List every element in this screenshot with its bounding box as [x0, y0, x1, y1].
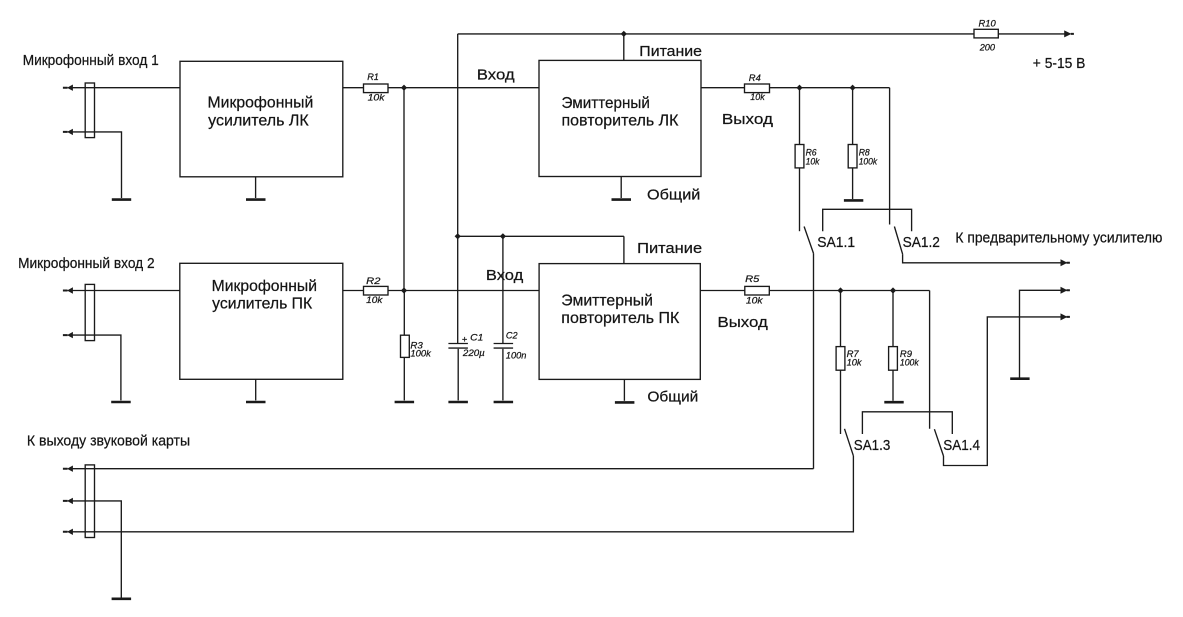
wire: SA1.2 output to preamp arrow [903, 254, 1061, 263]
arrow at jack1 pin2 [63, 129, 73, 135]
svg-text:Выход: Выход [722, 112, 774, 128]
svg-text:повторитель ЛК: повторитель ЛК [562, 113, 679, 130]
ground (block U3) [246, 401, 266, 404]
capacitor C2 [494, 343, 513, 345]
wire: block U1 ground pin [255, 177, 257, 198]
svg-text:Общий: Общий [647, 187, 700, 203]
svg-text:К предварительному усилителю: К предварительному усилителю [955, 231, 1162, 247]
node: junction R9 [890, 287, 896, 293]
svg-text:R2: R2 [366, 275, 381, 286]
ground (jack2) [111, 401, 131, 404]
svg-text:Выход: Выход [718, 315, 769, 331]
resistor R10 [974, 29, 998, 38]
connector XS2 (mic input 2 jack) [85, 284, 94, 340]
ground (R8) [844, 199, 863, 202]
switch SA1.4 blade [934, 429, 943, 456]
resistor R1 [364, 84, 389, 93]
svg-text:усилитель ЛК: усилитель ЛК [208, 112, 309, 129]
svg-text:Микрофонный: Микрофонный [212, 278, 317, 295]
svg-text:10k: 10k [368, 91, 386, 102]
wire: R3 top lead [403, 291, 405, 336]
wire: U3 ground pin [255, 379, 257, 400]
arrow: right output 3 [1061, 313, 1070, 320]
ground (R9) [884, 401, 903, 404]
wire: R2 to emitter follower PK input [388, 290, 539, 292]
block U1: Микрофонный усилитель ЛК [180, 61, 343, 177]
svg-text:SA1.3: SA1.3 [854, 438, 891, 454]
wire: U4 ground pin [623, 379, 625, 400]
svg-text:10k: 10k [366, 294, 384, 305]
wire: jack1 pin2 to ground [73, 132, 122, 198]
wire: U3 output to R2 [343, 290, 364, 292]
arrow: preamp left channel [1061, 259, 1070, 266]
wire: U2 ground pin [620, 177, 622, 199]
resistor R7 [836, 347, 845, 371]
svg-text:SA1.2: SA1.2 [903, 235, 940, 251]
svg-text:повторитель ПК: повторитель ПК [561, 310, 679, 327]
wire: R1 to emitter follower LK input [388, 87, 539, 89]
block U3: Микрофонный усилитель ПК [180, 263, 343, 379]
svg-text:10k: 10k [750, 91, 766, 102]
svg-text:Общий: Общий [647, 390, 698, 406]
arrow at jack3 pin3 [63, 529, 73, 535]
node A (junction R1 out) [401, 85, 407, 91]
svg-text:100k: 100k [410, 348, 432, 359]
wire: +V rail top [458, 33, 974, 35]
capacitor C1 [448, 343, 468, 345]
resistor R8 [848, 145, 857, 168]
wire: SA1.3 output down to sound card line [73, 456, 854, 532]
svg-text:R5: R5 [745, 273, 760, 284]
wire: R8 bottom lead [852, 168, 854, 199]
svg-text:Питание: Питание [637, 241, 702, 257]
svg-text:Питание: Питание [639, 44, 702, 60]
resistor R9 [889, 347, 898, 371]
arrow at jack1 pin1 [63, 85, 73, 91]
wire: R8 top lead [852, 88, 854, 145]
wire: R7 top lead [840, 291, 842, 347]
ground (right arm) [1010, 377, 1029, 380]
wire: C2 top lead [502, 236, 504, 343]
wire: R4 to SA1.2 corner [770, 87, 890, 89]
svg-text:SA1.1: SA1.1 [817, 235, 855, 251]
node: junction C2 rail [500, 233, 506, 239]
node: junction R7 [837, 287, 843, 293]
wire: C2 bottom lead [502, 349, 504, 401]
svg-text:Эмиттерный: Эмиттерный [562, 95, 650, 112]
node: Питание pin (row1) dot [621, 31, 627, 37]
node: junction R2 out [401, 287, 407, 293]
switch SA1.3 blade [845, 429, 854, 456]
wire: U2 output to R4 [701, 87, 745, 89]
wire: SA1.1 output long line to jack3 pin1 [73, 468, 814, 470]
ground (C2) [494, 401, 513, 404]
arrow: +5-15V supply [1064, 30, 1074, 37]
wire: R9 bottom lead [892, 370, 894, 401]
svg-text:R1: R1 [367, 71, 379, 82]
wire: U1 output to R1 [343, 87, 364, 89]
node: junction R8 [850, 85, 856, 91]
svg-text:100n: 100n [506, 350, 527, 361]
arrow: right output 2 [1061, 287, 1070, 294]
wire: SA1.4 feed vertical [929, 291, 931, 429]
resistor R2 [364, 286, 389, 295]
resistor R5 [745, 286, 770, 295]
connector XS1 (mic input 1 jack) [85, 83, 94, 138]
wire: R3 bottom lead [403, 357, 405, 400]
svg-text:100k: 100k [859, 156, 879, 167]
wire: junction column A down to row 2 [403, 88, 405, 291]
wire: C1 bottom lead [457, 349, 459, 401]
svg-text:Микрофонный: Микрофонный [208, 95, 314, 112]
svg-text:Эмиттерный: Эмиттерный [561, 292, 653, 309]
wire: R6 bottom lead to SA1.1 [799, 168, 801, 231]
wire: row2 supply rail [458, 235, 624, 237]
svg-text:SA1.4: SA1.4 [943, 438, 980, 454]
ground (R3) [395, 401, 415, 404]
wire: R6 top lead [799, 88, 801, 145]
svg-text:C1: C1 [470, 332, 483, 343]
wire: bracket SA1.3-SA1.4 [862, 412, 952, 434]
arrow at jack2 pin2 [63, 332, 73, 338]
svg-text:К выходу звуковой карты: К выходу звуковой карты [27, 434, 190, 450]
wire: Питание pin row1 [623, 34, 625, 61]
wire: jack2 pin1 to mic amp PK [73, 290, 180, 292]
switch SA1.2 blade [894, 227, 902, 255]
svg-text:C2: C2 [506, 330, 518, 341]
wire: +V rail vertical to C1 [457, 34, 459, 343]
svg-text:Вход: Вход [486, 268, 524, 284]
svg-text:R4: R4 [749, 72, 761, 83]
wire: R7 bottom lead to SA1.3 [840, 370, 842, 434]
wire: Питание pin row2 [623, 236, 625, 263]
resistor R4 [745, 84, 770, 93]
wire: R10 to supply arrow [998, 33, 1064, 35]
arrow at jack2 pin1 [63, 287, 73, 293]
wire: jack1 pin1 to mic amp LK input [73, 87, 181, 89]
ground (block U1) [246, 198, 266, 201]
wire: R5 to SA1.4 corner [769, 290, 929, 292]
svg-text:10k: 10k [746, 295, 764, 306]
wire: right output 2 with ground arm [1020, 290, 1061, 378]
svg-text:усилитель ПК: усилитель ПК [212, 296, 312, 313]
ground (block U4) [615, 401, 635, 404]
arrow at jack3 pin1 [63, 466, 73, 472]
block U2: Эмиттерный повторитель ЛК [539, 60, 701, 176]
block U4: Эмиттерный повторитель ПК [539, 264, 700, 380]
wire: U4 output to R5 [700, 290, 745, 292]
arrow at jack3 pin2 [63, 498, 73, 504]
svg-text:Вход: Вход [477, 68, 515, 84]
wire: jack2 pin2 to ground [73, 335, 121, 400]
svg-text:R10: R10 [979, 17, 997, 28]
svg-text:200: 200 [979, 41, 996, 52]
svg-text:+: + [462, 334, 468, 345]
ground (jack1) [112, 198, 131, 201]
wire: SA1.1 output down [813, 253, 815, 468]
wire: SA1.2 feed vertical [889, 88, 891, 225]
ground (block U2) [612, 198, 632, 201]
wire: R9 top lead [892, 291, 894, 347]
node: junction R6 [796, 85, 802, 91]
node: junction C1 rail [455, 233, 461, 239]
ground (C1) [448, 401, 468, 404]
connector XS3 (sound card jack) [85, 465, 94, 538]
switch SA1.1 blade [804, 227, 813, 254]
svg-text:+ 5-15 В: + 5-15 В [1033, 56, 1086, 72]
resistor R3 [401, 335, 410, 357]
svg-text:100k: 100k [900, 357, 920, 368]
resistor R6 [795, 145, 804, 168]
svg-text:10k: 10k [806, 156, 821, 167]
svg-text:Микрофонный вход 2: Микрофонный вход 2 [18, 256, 155, 272]
svg-text:10k: 10k [847, 357, 863, 368]
ground (jack3) [112, 597, 132, 600]
wire: jack3 pin2 to ground [73, 501, 122, 598]
svg-text:Микрофонный вход 1: Микрофонный вход 1 [23, 53, 159, 69]
svg-text:220µ: 220µ [462, 347, 485, 358]
wire: bracket SA1.1-SA1.2 [823, 209, 912, 231]
wire: SA1.4 output to right output arrow [944, 317, 1061, 466]
